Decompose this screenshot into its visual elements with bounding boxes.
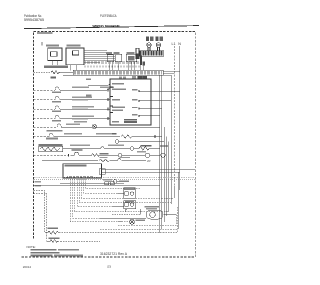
svg-text:316232721 Rev A: 316232721 Rev A — [100, 252, 128, 256]
svg-text:L1: L1 — [172, 42, 176, 46]
svg-text:20': 20' — [147, 159, 151, 163]
svg-text:(23): (23) — [107, 264, 111, 268]
svg-text:20014: 20014 — [23, 265, 32, 269]
svg-text:PLEF398ACA: PLEF398ACA — [100, 14, 117, 18]
svg-text:NOTE:: NOTE: — [27, 245, 36, 249]
svg-text:N: N — [178, 42, 181, 46]
svg-text:WIRING DIAGRAM: WIRING DIAGRAM — [93, 24, 121, 29]
svg-text:5995438765: 5995438765 — [24, 18, 44, 22]
